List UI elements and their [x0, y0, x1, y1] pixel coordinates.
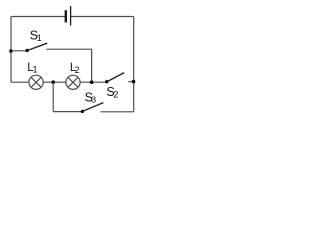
- wire left vertical: [10, 17, 12, 83]
- svg-text:3: 3: [91, 95, 96, 105]
- wire S1 branch right + drop: [47, 49, 92, 82]
- wire lamp row into L1: [11, 81, 29, 83]
- svg-text:1: 1: [33, 65, 38, 75]
- switch S1 pivot: [26, 49, 29, 52]
- node junction right-vertical / S2: [132, 80, 136, 84]
- wire L1 to L2: [43, 81, 66, 83]
- wire L2 to S2 pivot: [80, 81, 107, 83]
- svg-text:1: 1: [37, 33, 42, 43]
- wire bottom left: [53, 111, 82, 113]
- wire right vertical: [133, 17, 135, 112]
- node junction lamp row / S3 branch: [51, 80, 55, 84]
- wire bottom right: [101, 111, 134, 113]
- wire top-right: [71, 16, 134, 18]
- battery B1: [66, 6, 71, 26]
- switch S1 blade: [27, 43, 47, 50]
- wire S3 branch drop: [52, 82, 54, 111]
- switch S3 pivot: [81, 110, 84, 113]
- lamp L2: [66, 75, 80, 89]
- svg-text:2: 2: [75, 65, 80, 75]
- svg-text:2: 2: [113, 90, 118, 100]
- node junction left-vertical / S1 branch: [9, 49, 13, 53]
- node junction S1-drop / lamp row: [90, 80, 94, 84]
- wire top-left: [11, 16, 66, 18]
- wire S2 fixed contact stub: [128, 81, 134, 83]
- wire S1 branch left: [11, 50, 27, 52]
- lamp L1: [29, 75, 43, 89]
- switch S3 blade: [82, 103, 103, 112]
- switch S2 pivot: [105, 80, 108, 83]
- switch S2 blade: [107, 73, 125, 82]
